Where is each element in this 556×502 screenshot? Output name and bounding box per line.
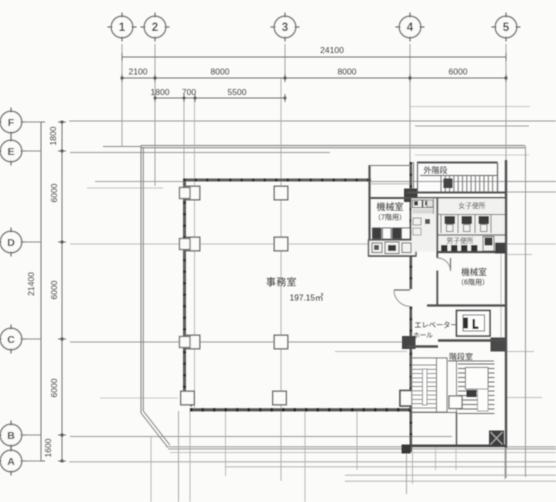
node: site boundary corner cut diagonal [141,413,168,447]
svg-text:700: 700 [182,87,196,97]
node: grid bubble 2 [144,16,166,38]
svg-text:197.15㎡: 197.15㎡ [290,293,324,303]
fixtures: WC stalls (women) [440,215,442,233]
wire: bubble leader [22,460,41,462]
fixture: corridor marks [413,209,434,214]
svg-text:B: B [7,430,15,442]
node: grid bubble C [0,328,22,350]
door: corridor to machine room 6F [450,258,452,271]
wall: office right / tower spine x410.8 upper [409,162,412,289]
wire: line left of wall [95,181,183,183]
column: bottom-right office corner [400,391,414,407]
node: left stair rail [423,369,428,405]
node: dimension line 1800/6000/6000/6000/1600 (vertical) [61,122,63,461]
wire: canopy lines right of office [371,181,556,183]
svg-text:1800: 1800 [48,126,58,145]
elevator: shaft EL [457,311,491,337]
node: grid bubble 5 [495,16,517,38]
node: left wall squares [180,188,191,199]
svg-text:4: 4 [407,22,414,34]
wall: stall row line [437,214,506,216]
wall: tower bottom y445.8 [407,444,506,447]
room: exterior stair 外階段 [417,162,498,164]
svg-text:C: C [7,334,15,346]
wire: grid 1 vertical [121,44,123,147]
wall: office left [183,179,186,396]
svg-text:機械室: 機械室 [376,201,403,212]
svg-text:男子便所: 男子便所 [446,236,473,245]
svg-text:D: D [7,237,15,249]
wire: leader line to stair room [335,351,407,353]
node: dimension line 1800/700/5500 [155,97,285,99]
column at (187.5,398) [181,391,195,405]
wire: stair top edge [448,360,494,362]
wire: bubble leader [22,434,41,436]
svg-text:E: E [7,146,14,158]
svg-text:3: 3 [282,22,288,34]
svg-text:階段室: 階段室 [449,352,473,362]
wire: survey line y152 (grid row E) [70,152,330,154]
svg-text:24100: 24100 [320,45,344,55]
node: dimension line 24100 [122,56,506,58]
node: landing box between stairs [449,396,462,409]
svg-text:エレベーター: エレベーター [414,321,457,330]
svg-text:5: 5 [503,22,510,34]
svg-text:8000: 8000 [211,67,230,77]
svg-text:1600: 1600 [43,438,53,457]
stair treads: right stair [458,363,495,365]
node: grid bubble E [0,140,22,162]
wire: bubble leader [22,241,41,243]
node: exterior stair landing mark [444,179,452,188]
wall: office right / tower spine x410.8 lower [409,307,412,453]
room: corridor washbasins [413,200,423,208]
node: dimension line 21400 (vertical) [40,122,42,461]
stair treads: exterior stair [440,176,442,192]
column: dark node toilet right [496,243,505,253]
wire: left stair bottom [412,412,456,414]
wall: toilet left wall x437.3 lower [436,271,438,306]
fixtures: WC stalls (men) [483,237,494,252]
door: office to elevator hall [394,289,410,291]
node: dimension line 2100/8000/8000/6000 [122,77,506,79]
wall: spine parallel line [413,162,415,198]
wire: grid row D line [70,243,556,245]
wire: grid 4 vertical [409,44,411,162]
node: grid bubble F [0,111,22,133]
svg-text:6000: 6000 [49,378,59,397]
wall: toilet block top y198 [369,197,506,199]
wall: below machine 6F / above stair y340.5 [438,339,506,341]
node: grid bubble 3 [274,16,296,38]
svg-text:F: F [8,117,15,129]
wall: toilet bottom y252 [437,251,506,253]
wall: stub y165 [369,165,412,167]
wall: office top [183,179,371,182]
svg-text:A: A [7,456,15,468]
column at (281,244) [274,237,288,251]
column at (193,342) [186,335,200,349]
svg-text:事務室: 事務室 [266,276,297,289]
node: grid bubble D [0,231,22,253]
node: dark blob at spine bottom [402,445,410,453]
svg-text:機械室: 機械室 [461,267,487,277]
svg-text:1800: 1800 [151,87,170,97]
node: site boundary top (double line) [103,146,141,148]
wall: below elevator hall y346.5 [407,345,438,347]
wire: grid row B line [70,436,452,438]
wall: toilets partition y235 [437,234,506,236]
column: dark node row C right [403,337,416,349]
column at (281,193) [274,186,288,200]
wire: grid 3 vertical [284,44,286,78]
node: grid bubble 4 [399,16,421,38]
node: right stair void [466,368,489,390]
wall: machine room 6F bottom y305.5 [427,304,506,306]
svg-text:6000: 6000 [49,183,59,202]
node: site boundary right [525,146,527,477]
svg-text:8000: 8000 [338,67,357,77]
wire: bubble leader [22,338,41,340]
column at (193,193) [186,186,200,200]
wall: office bottom [190,408,412,411]
column: dark node stair room right [491,338,506,351]
wire: bottom survey lines [170,452,556,454]
svg-text:外階段: 外階段 [424,165,448,175]
node: grid bubble 1 [111,16,133,38]
svg-text:5500: 5500 [228,87,247,97]
svg-text:（7階用）: （7階用） [374,213,406,222]
wall: toilet left wall x437.3 upper [436,198,438,258]
wire: survey line y121 [69,120,556,122]
node: duct shaft bottom right [490,431,504,446]
wall: tower top at y192.5 [407,192,506,194]
column at (193,244) [186,237,200,251]
wire: bubble leader [22,121,41,123]
wire: grid vertical x194 [194,98,196,408]
node: site boundary left (double line) [140,146,142,414]
room: stair left box [412,358,447,412]
node: grid bubble B [0,424,22,446]
svg-text:（6階用）: （6階用） [457,278,489,287]
wire: top-right short survey lines [410,106,530,108]
svg-text:21400: 21400 [26,272,36,296]
svg-text:1: 1 [119,22,126,34]
room: toilet block tint [412,199,506,252]
fixture: washbasin counter [369,240,417,256]
column: dark node top-right [405,189,418,202]
wall: office bottom-left chamfer [185,394,193,406]
wire: right side stubs [506,191,556,193]
wall: machine room 7F bottom [369,251,412,253]
wall: divider x456.5 bottom [456,412,458,445]
svg-text:6000: 6000 [449,67,468,77]
wire: dim tick vertical x184 [183,98,185,186]
svg-text:2100: 2100 [129,67,148,77]
wire: verticals below building [150,437,152,502]
wire: grid 2 vertical [154,44,156,186]
wall: machine room 7F left x369.5 [368,165,370,252]
wire: bubble leader [22,150,41,152]
wire: grid row C line [70,341,407,343]
svg-text:女子便所: 女子便所 [458,201,485,210]
wire: grid row A line [69,461,556,463]
svg-text:ホール: ホール [413,332,433,340]
column at (281,342) [274,335,288,349]
column at (279.5,398) [273,391,287,405]
node: site boundary bottom (double line) [166,446,556,448]
wire: grid 5 vertical [505,44,507,160]
fixtures: machine room 7F [373,228,382,239]
node: grid bubble A [0,450,22,472]
svg-text:2: 2 [152,22,158,34]
svg-text:6000: 6000 [49,280,59,299]
stair treads: left stair [413,364,437,366]
wall: tower right x506 [505,160,507,448]
